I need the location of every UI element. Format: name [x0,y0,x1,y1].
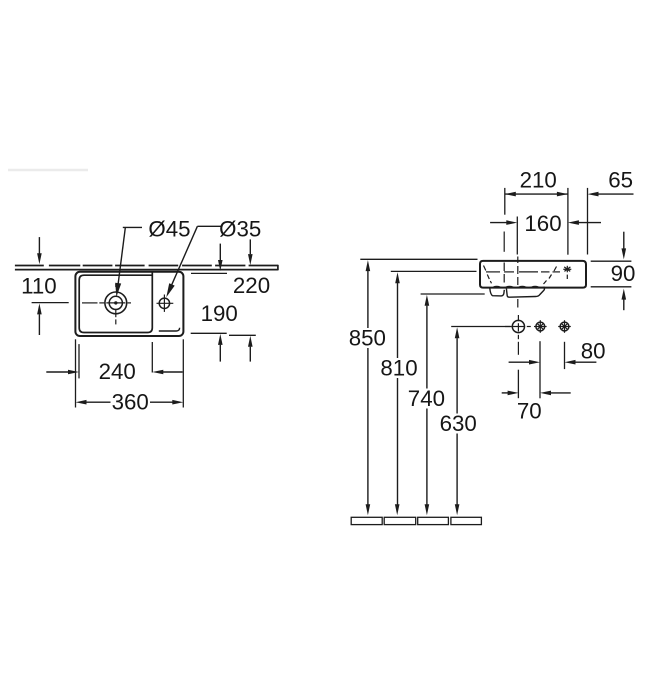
dim 740 arrow [425,295,430,515]
dim 850 arrow [366,260,371,515]
label 810 [379,355,420,380]
810 reference line [391,270,477,272]
svg-text:Ø35: Ø35 [219,216,261,241]
dim 240 [46,371,68,373]
dim 210 [505,192,516,197]
label 740 [406,386,447,411]
dim 160 [490,222,507,224]
svg-text:160: 160 [524,211,561,236]
floor tiles [351,517,481,524]
drain hole Ø45 (plan) [105,292,127,314]
extension lines below basin (plan) [75,339,77,407]
fixing hole 2 (front) [536,322,545,331]
drain hole centerlines [82,284,131,325]
tap hole symbol (front) [563,266,571,279]
svg-text:240: 240 [99,359,136,384]
dim 630 arrow [455,327,460,515]
tap hole Ø35 (plan) [159,298,169,308]
hidden bowl water line (front) [486,271,560,273]
dim 65 [588,192,599,197]
dim 70 [502,392,508,394]
basin outer outline (plan view) [75,272,183,336]
faint artifact streak top-left [8,169,88,172]
hidden bowl side curves (front) [484,266,557,285]
dim 90 arrows [623,232,625,249]
svg-text:Ø45: Ø45 [148,216,190,241]
leader line Ø45 [118,228,125,285]
svg-text:220: 220 [233,273,270,298]
label 850 [347,325,388,350]
svg-text:90: 90 [611,261,636,286]
svg-text:740: 740 [408,386,445,411]
drain hole (front) [512,320,524,332]
dim 220 arrows [249,239,251,254]
label 630 [438,411,479,436]
svg-text:80: 80 [581,338,606,363]
svg-text:65: 65 [608,167,633,192]
dim 110 reference line [32,302,69,304]
drain hole crosshair [505,315,531,332]
svg-text:190: 190 [201,301,238,326]
siphon outline (front) [490,288,505,296]
drain dashed centerline (vertical) [517,257,520,355]
deck inner rim line (plan view right) [159,328,180,331]
basin outline (front view) [480,261,586,288]
dim 220 reference line [229,334,256,336]
850 reference line [360,258,477,260]
dim 810 arrow [395,272,400,515]
hidden underside wavy line (front) [494,286,545,287]
svg-text:360: 360 [112,389,149,414]
hole3 extension line [564,342,566,369]
leader line Ø35 [170,226,197,288]
dim 360 [76,400,87,405]
extension verticals above basin [504,188,506,215]
wall right end cap [277,265,279,271]
dim 80 [509,361,530,363]
dim 90 reference lines [591,260,632,262]
dim 190 arrows [219,244,221,261]
wall top segmented line (plan view) [15,265,278,267]
fixing hole 3 (front) [560,322,569,331]
bowl inner outline (plan view) [79,272,152,332]
wall bottom line (plan view) [15,269,278,271]
dim 190 reference lines [191,332,227,334]
vertical dashed centerline (left fixing / drain area) [503,232,505,283]
svg-text:110: 110 [21,273,57,298]
svg-text:630: 630 [440,411,477,436]
svg-text:850: 850 [349,325,386,350]
dim 110 arrows [38,237,40,253]
740 reference line [421,293,485,295]
630 reference line [451,326,511,328]
hole2 extension line [539,341,541,398]
svg-text:70: 70 [517,398,542,423]
svg-text:810: 810 [380,355,417,380]
svg-text:210: 210 [520,167,557,192]
